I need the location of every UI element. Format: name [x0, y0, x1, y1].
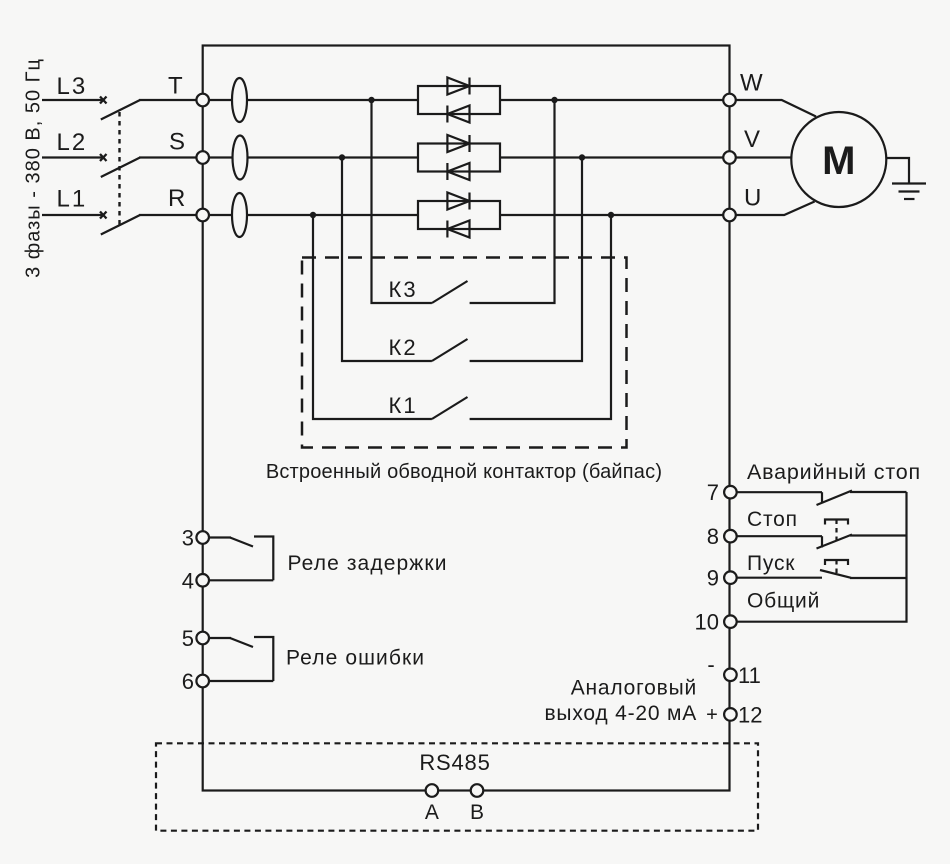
wire V line — [500, 156, 730, 158]
wire common bus — [737, 492, 907, 622]
RS485 dashed box — [156, 743, 758, 830]
svg-text:Реле задержки: Реле задержки — [288, 552, 448, 575]
junction W-K3 right — [551, 97, 557, 103]
svg-text:B: B — [470, 801, 484, 824]
emergency stop switch (NC) — [737, 491, 907, 506]
wire L1 to R — [139, 214, 203, 216]
terminal U — [723, 209, 736, 222]
contactor K2 blade — [432, 339, 468, 361]
wire W to motor — [736, 100, 816, 117]
wire K3 left drop — [372, 100, 432, 303]
svg-text:4: 4 — [182, 569, 194, 594]
svg-text:9: 9 — [707, 566, 719, 591]
junction R-K1 left — [310, 212, 316, 218]
svg-text:L1: L1 — [57, 186, 88, 213]
svg-text:L2: L2 — [57, 129, 88, 156]
wire K2 right drop — [470, 158, 582, 362]
wire K1 right drop — [470, 215, 611, 419]
terminal 4 — [196, 574, 209, 587]
wire L3 — [42, 99, 102, 101]
arrow L3 — [100, 97, 107, 104]
wire U to motor — [736, 202, 815, 216]
svg-text:L3: L3 — [57, 73, 88, 100]
svg-text:-: - — [707, 652, 714, 677]
svg-text:Встроенный обводной контактор: Встроенный обводной контактор (байпас) — [266, 461, 662, 483]
svg-text:3 фазы - 380 В, 50 Гц: 3 фазы - 380 В, 50 Гц — [23, 58, 45, 278]
fault relay contact (5-6) — [209, 637, 273, 681]
wire motor to ground — [886, 158, 909, 184]
wire L2 to S — [139, 156, 203, 158]
terminal 5 — [196, 632, 209, 645]
stop pushbutton actuator — [825, 520, 848, 542]
wire L2 — [42, 156, 102, 158]
svg-text:6: 6 — [182, 669, 194, 694]
svg-text:T: T — [168, 73, 183, 100]
breaker pole L1 — [101, 215, 140, 235]
svg-text:7: 7 — [707, 480, 719, 505]
svg-text:3: 3 — [182, 526, 194, 551]
motor M — [791, 112, 886, 207]
svg-text:11: 11 — [738, 663, 761, 688]
wire R line — [203, 214, 418, 216]
breaker mechanical link (dashed) — [118, 112, 120, 228]
svg-text:Пуск: Пуск — [747, 552, 795, 575]
svg-text:RS485: RS485 — [419, 750, 490, 775]
terminal 3 — [196, 531, 209, 544]
wire U line — [500, 214, 730, 216]
junction U-K1 right — [608, 212, 614, 218]
wire T line — [203, 99, 418, 101]
terminal 9 — [724, 571, 737, 584]
wire V to motor — [736, 156, 792, 158]
svg-text:12: 12 — [738, 702, 762, 727]
wire K3 right drop — [470, 100, 555, 303]
svg-text:Реле ошибки: Реле ошибки — [286, 647, 425, 670]
junction T-K3 left — [368, 97, 374, 103]
svg-text:W: W — [740, 70, 763, 97]
terminal 7 — [724, 486, 737, 499]
junction S-K2 left — [339, 154, 345, 160]
wire W line — [500, 99, 730, 101]
svg-text:Стоп: Стоп — [747, 508, 798, 531]
wire K2 left drop — [342, 158, 432, 362]
terminal A — [426, 784, 439, 797]
svg-text:Аварийный стоп: Аварийный стоп — [747, 460, 921, 484]
svg-text:К2: К2 — [389, 335, 418, 360]
svg-text:S: S — [169, 129, 185, 156]
terminal T — [196, 94, 209, 107]
wire L3 to T — [139, 99, 203, 101]
start pushbutton actuator — [825, 560, 848, 574]
current transformer R — [232, 193, 247, 237]
terminal 8 — [724, 530, 737, 543]
arrow L1 — [100, 212, 107, 219]
svg-text:5: 5 — [182, 626, 194, 651]
stop switch (NC) — [737, 535, 907, 549]
ground — [892, 184, 926, 200]
contactor K1 blade — [432, 397, 468, 419]
svg-text:К3: К3 — [389, 277, 418, 302]
terminal R — [196, 209, 209, 222]
current transformer T — [232, 78, 247, 122]
terminal B — [471, 784, 484, 797]
svg-text:Общий: Общий — [747, 589, 820, 612]
svg-text:V: V — [744, 126, 760, 153]
svg-text:A: A — [425, 801, 439, 824]
svg-text:U: U — [744, 185, 761, 212]
wire L1 — [42, 214, 102, 216]
start switch (NO) — [737, 570, 907, 578]
breaker pole L3 — [101, 100, 140, 120]
delay relay contact (3-4) — [209, 537, 273, 581]
soft starter enclosure box — [203, 46, 730, 791]
svg-text:Аналоговый: Аналоговый — [571, 677, 697, 700]
svg-text:выход 4-20 мА: выход 4-20 мА — [544, 702, 697, 725]
terminal 10 — [724, 615, 737, 628]
svg-text:8: 8 — [707, 524, 719, 549]
terminal V — [723, 151, 736, 164]
bypass contactor dashed box — [302, 258, 627, 448]
svg-text:К1: К1 — [389, 393, 418, 418]
terminal S — [196, 151, 209, 164]
svg-text:R: R — [168, 185, 185, 212]
terminal 6 — [196, 675, 209, 688]
wire S line — [203, 156, 418, 158]
svg-text:+: + — [706, 704, 718, 726]
svg-text:M: M — [822, 139, 855, 183]
wire K1 left drop — [313, 215, 432, 419]
thyristor module S (anti-parallel SCR pair) — [418, 135, 500, 180]
breaker pole L2 — [101, 158, 140, 178]
junction V-K2 right — [579, 154, 585, 160]
terminal W — [723, 94, 736, 107]
contactor K3 blade — [432, 281, 468, 303]
thyristor module T (anti-parallel SCR pair) — [418, 78, 500, 123]
terminal 12 — [724, 708, 737, 721]
arrow L2 — [100, 154, 107, 161]
terminal 11 — [724, 669, 737, 682]
current transformer S — [233, 136, 248, 180]
svg-text:10: 10 — [695, 610, 719, 635]
thyristor module R (anti-parallel SCR pair) — [418, 193, 500, 238]
